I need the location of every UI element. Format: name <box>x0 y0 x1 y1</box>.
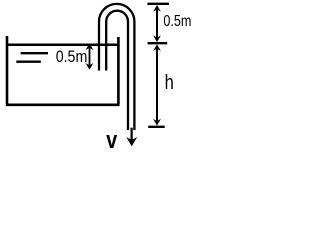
svg-text:0.5m: 0.5m <box>163 13 191 30</box>
svg-text:v: v <box>106 127 117 152</box>
svg-text:h: h <box>165 72 174 94</box>
svg-text:0.5m: 0.5m <box>56 48 88 66</box>
